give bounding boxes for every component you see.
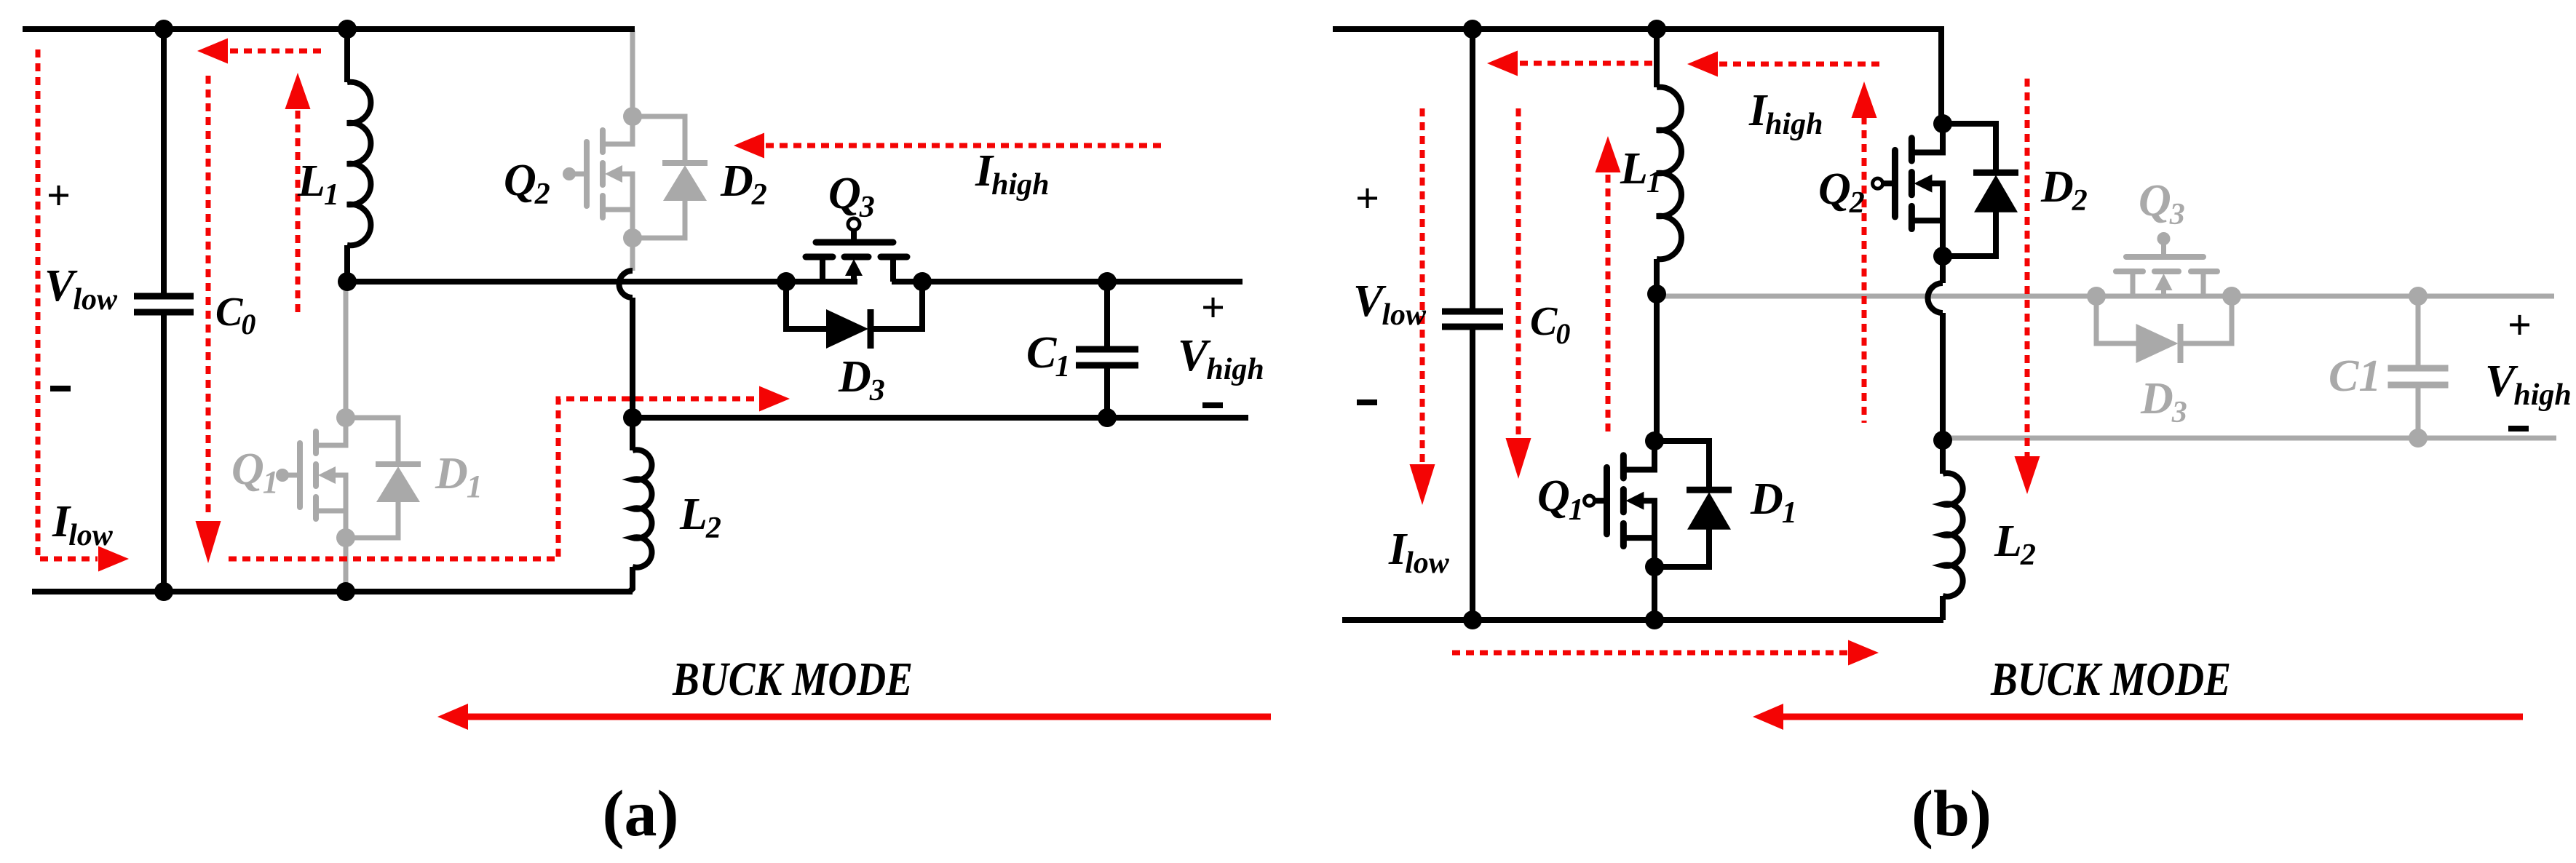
label + of V_high port (circuit b)	[2508, 301, 2532, 349]
label − of V_low port (circuit a)	[50, 386, 71, 391]
diode D2 (body diode of Q2, circuit a)	[633, 116, 708, 238]
inductor L1 (circuit b)	[1647, 29, 1681, 303]
label I_low (circuit b)	[1388, 525, 1450, 580]
label + of V_high port (circuit a)	[1201, 284, 1225, 331]
wire Q2 source to crossover (circuit b)	[1940, 256, 1946, 283]
label I_high (circuit b)	[1748, 86, 1823, 141]
current path I_high (circuit b)	[1687, 52, 1882, 77]
label V_low (circuit a)	[44, 261, 118, 317]
inductor L2 (circuit b)	[1943, 440, 1963, 620]
transistor Q2 (circuit a, inactive)	[563, 31, 642, 247]
diode D3 (circuit b)	[2096, 296, 2232, 363]
label L2 (circuit b)	[1994, 517, 2036, 572]
wire from crossover to L2 (circuit a)	[623, 298, 642, 427]
label (a)	[603, 778, 679, 850]
arrow buck-mode direction (circuit a)	[437, 704, 1271, 730]
current loop V_low (circuit b)	[1410, 108, 1435, 505]
current arrow into node (circuit b)	[1487, 51, 1657, 76]
inductor L1 (circuit a)	[338, 29, 370, 291]
label BUCK MODE (circuit a)	[672, 653, 913, 706]
wire bottom rail (circuit a)	[32, 582, 633, 601]
svg-text:BUCK MODE: BUCK MODE	[672, 653, 913, 706]
transistor Q3 (circuit b, inactive)	[2087, 232, 2241, 306]
svg-text:BUCK MODE: BUCK MODE	[1990, 653, 2231, 706]
label BUCK MODE (circuit b)	[1990, 653, 2231, 706]
transistor Q3 (circuit a, active)	[786, 218, 922, 282]
label C0 (circuit a)	[215, 290, 255, 341]
diode D1 (body diode of Q1, circuit a)	[346, 418, 421, 538]
current return path via L2 (circuit a)	[229, 386, 790, 560]
label V_high (circuit a)	[1178, 331, 1264, 386]
transistor Q1 (circuit a, inactive)	[276, 282, 355, 547]
label D1 (circuit a)	[435, 449, 483, 504]
label Q3 (circuit a)	[828, 169, 875, 224]
wire Q1 source to low rail (circuit a)	[344, 538, 349, 592]
label Q1 (circuit a)	[231, 445, 279, 500]
capacitor C1 (circuit a)	[1076, 282, 1138, 418]
label D3 (circuit a)	[838, 352, 885, 407]
label D1 (circuit b)	[1750, 474, 1797, 530]
label L2 (circuit a)	[679, 490, 721, 545]
label (b)	[1911, 778, 1992, 850]
svg-text:+: +	[47, 172, 71, 219]
capacitor C0 (circuit b)	[1442, 29, 1503, 620]
label C1 (circuit b)	[2329, 351, 2381, 401]
wire high-side top rail (circuit b, inactive)	[1657, 294, 2554, 299]
wire L1 to Q1 (circuit b)	[1645, 294, 1664, 450]
svg-text:+: +	[1355, 175, 1379, 222]
svg-text:C1: C1	[2329, 351, 2381, 401]
current arrow through L1 (circuit b)	[1596, 136, 1621, 434]
wire top rail (circuit b)	[1333, 20, 1941, 124]
svg-text:(b): (b)	[1911, 778, 1992, 850]
current arrow through L1 (circuit a)	[285, 73, 311, 314]
label + of V_low port (circuit b)	[1355, 175, 1379, 222]
current arrow to low side node (circuit a)	[197, 39, 324, 64]
wire switch-node rail (circuit a)	[347, 279, 1243, 285]
current loop I_low (circuit a)	[38, 49, 129, 572]
inductor L2 (circuit a)	[630, 418, 652, 592]
current return along bottom rail (circuit b)	[1452, 640, 1879, 666]
label D2 (circuit b)	[2040, 162, 2088, 218]
diode D2 (circuit b)	[1943, 124, 2018, 256]
wire crossover to L2 node (circuit b)	[1933, 313, 1952, 450]
label V_high (circuit b)	[2485, 357, 2572, 412]
wire high-side bottom rail (circuit a)	[633, 408, 1248, 427]
label − of V_high port (circuit b)	[2508, 426, 2529, 431]
label − of V_low port (circuit b)	[1357, 399, 1377, 405]
capacitor C1 (circuit b)	[2388, 287, 2449, 448]
current loop C0 (circuit b)	[1506, 108, 1531, 479]
current arrow through L2 (circuit b)	[2015, 79, 2040, 494]
label Q2 (circuit a)	[504, 156, 550, 211]
svg-text:(a): (a)	[603, 778, 679, 850]
label D2 (circuit a)	[720, 156, 767, 212]
wire crossover hop (circuit a)	[619, 271, 633, 298]
label I_high (circuit a)	[975, 146, 1050, 202]
label C1 (circuit a)	[1026, 328, 1070, 383]
label I_low (circuit a)	[52, 497, 114, 552]
transistor Q2 (circuit b, active)	[1873, 114, 1952, 266]
capacitor C0 (circuit a)	[134, 29, 194, 592]
current arrow through Q2 (circuit b)	[1852, 81, 1877, 423]
label + of V_low port (circuit a)	[47, 172, 71, 219]
wire crossover hop (circuit b)	[1927, 283, 1943, 313]
wire top rail (circuit a)	[23, 20, 635, 39]
wire high-side bottom rail (circuit b, inactive)	[1941, 436, 2556, 441]
label L1 (circuit b)	[1620, 144, 1662, 199]
current path I_high (circuit a)	[734, 133, 1161, 159]
label Q2 (circuit b)	[1818, 164, 1865, 220]
diode D1 (circuit b)	[1654, 441, 1732, 567]
label − of V_high port (circuit a)	[1202, 402, 1223, 408]
label Q1 (circuit b)	[1537, 472, 1584, 527]
arrow buck-mode direction (circuit b)	[1753, 704, 2523, 730]
wire bottom rail (circuit b)	[1342, 611, 1943, 629]
label L1 (circuit a)	[297, 156, 339, 212]
svg-text:+: +	[2508, 301, 2532, 349]
svg-text:+: +	[1201, 284, 1225, 331]
label C0 (circuit b)	[1530, 299, 1570, 350]
label D3 (circuit b)	[2140, 374, 2187, 429]
wire Q1 source to bottom rail (circuit b)	[1652, 567, 1657, 620]
diode D3 (circuit a)	[786, 282, 922, 349]
transistor Q1 (circuit b, active)	[1585, 441, 1664, 576]
junction dots on switch rail (circuit a)	[777, 272, 1117, 291]
label V_low (circuit b)	[1353, 277, 1427, 332]
wire Q2 source to crossover (circuit a)	[630, 238, 635, 271]
label Q3 (circuit b)	[2139, 176, 2185, 231]
current arrow through C0 branch (circuit a)	[196, 76, 221, 563]
